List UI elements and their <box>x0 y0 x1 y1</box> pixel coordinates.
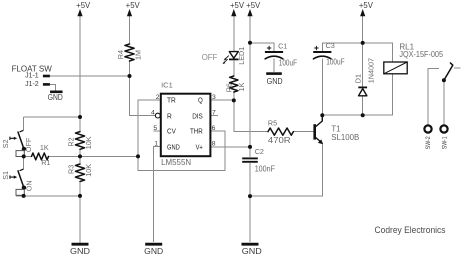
svg-text:THR: THR <box>190 127 203 136</box>
svg-text:C2: C2 <box>255 147 264 156</box>
svg-text:GND: GND <box>48 93 63 102</box>
svg-text:1: 1 <box>154 141 158 148</box>
svg-text:SL100B: SL100B <box>331 133 359 142</box>
svg-text:R1: R1 <box>41 158 50 167</box>
svg-text:+5V: +5V <box>126 1 141 10</box>
svg-text:+5V: +5V <box>76 1 91 10</box>
svg-text:LM555N: LM555N <box>161 158 191 167</box>
svg-text:R6: R6 <box>224 83 233 92</box>
svg-text:S2: S2 <box>1 139 10 148</box>
svg-text:8: 8 <box>212 141 216 148</box>
svg-text:GND: GND <box>242 246 262 256</box>
svg-text:10K: 10K <box>84 164 93 177</box>
svg-text:OFF: OFF <box>24 137 33 152</box>
svg-text:SW-2: SW-2 <box>425 136 432 149</box>
svg-text:V+: V+ <box>196 142 204 151</box>
svg-text:1M: 1M <box>133 50 142 60</box>
svg-text:10K: 10K <box>84 136 93 149</box>
svg-text:R3: R3 <box>67 165 76 174</box>
svg-text:3: 3 <box>212 94 216 101</box>
svg-text:GND: GND <box>267 77 283 86</box>
svg-text:OFF: OFF <box>202 53 218 62</box>
svg-text:100uF: 100uF <box>279 58 297 67</box>
svg-text:GND: GND <box>144 246 163 256</box>
svg-text:6: 6 <box>212 125 216 132</box>
svg-text:C3: C3 <box>326 41 335 50</box>
svg-text:Codrey Electronics: Codrey Electronics <box>375 225 446 235</box>
svg-text:C1: C1 <box>278 41 287 50</box>
svg-text:R2: R2 <box>67 137 76 146</box>
svg-text:1K: 1K <box>40 143 49 152</box>
svg-text:470R: 470R <box>268 136 291 145</box>
svg-text:+5V: +5V <box>359 1 374 10</box>
svg-text:S1: S1 <box>1 171 10 180</box>
svg-text:7: 7 <box>212 110 216 117</box>
svg-text:SW-1: SW-1 <box>441 136 448 149</box>
svg-text:TR: TR <box>167 96 176 105</box>
svg-text:R5: R5 <box>268 118 277 127</box>
svg-text:GND: GND <box>167 142 180 151</box>
svg-text:1K: 1K <box>237 82 246 91</box>
svg-text:4: 4 <box>151 110 155 117</box>
svg-text:Q: Q <box>198 96 203 105</box>
svg-text:1N4007: 1N4007 <box>366 58 375 83</box>
svg-text:+5V: +5V <box>230 1 245 10</box>
svg-text:DIS: DIS <box>192 111 203 120</box>
svg-text:R: R <box>167 111 172 120</box>
svg-text:5: 5 <box>153 125 157 132</box>
svg-text:100nF: 100nF <box>255 164 276 173</box>
svg-text:+5V: +5V <box>246 1 261 10</box>
svg-text:J1-2: J1-2 <box>25 81 39 88</box>
svg-text:LED1: LED1 <box>237 47 246 65</box>
svg-text:100uF: 100uF <box>326 58 344 67</box>
svg-text:D1: D1 <box>354 74 363 83</box>
svg-text:GND: GND <box>70 246 90 256</box>
svg-text:JQX-15F-005: JQX-15F-005 <box>399 50 443 59</box>
svg-text:2: 2 <box>156 94 160 101</box>
svg-text:R4: R4 <box>116 50 125 59</box>
svg-text:CV: CV <box>167 127 176 136</box>
svg-text:J1-1: J1-1 <box>25 73 39 80</box>
svg-text:ON: ON <box>24 180 33 191</box>
svg-text:IC1: IC1 <box>161 81 173 90</box>
